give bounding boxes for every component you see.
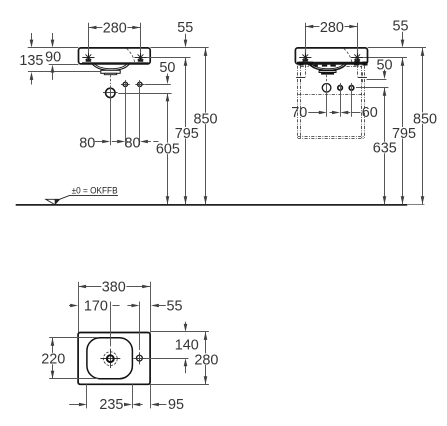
water connection circle left	[338, 86, 343, 91]
furniture cabinet left side panel (dash-dot double line)	[297, 66, 299, 139]
dim 280 (right) extension lines	[305, 23, 307, 54]
dim 170: left arrow	[69, 305, 70, 307]
dim text 850 (right)	[413, 112, 438, 124]
extension line: tap centre right	[145, 358, 189, 360]
dim text 850	[193, 113, 218, 125]
dim text 220	[41, 353, 66, 365]
dim 70/60 chain: first arrow	[308, 112, 319, 114]
extension line plan right edge down	[150, 384, 152, 408]
bowl outer curve (right view)	[309, 64, 347, 71]
bowl inner curve (right view)	[311, 64, 344, 69]
svg-text:850: 850	[413, 111, 437, 127]
drain level line (50 dim bottom / 605 level)	[118, 93, 171, 95]
right view: tap level line (795)	[364, 57, 408, 59]
extension line fixing hole right down	[139, 80, 141, 145]
svg-text:605: 605	[156, 142, 180, 158]
extension line fixing hole left down	[125, 80, 127, 145]
floor level symbol triangle	[46, 199, 60, 204]
svg-text:±0 = OKFFB: ±0 = OKFFB	[72, 185, 118, 196]
dim 635 vertical line	[384, 88, 386, 205]
dim text 635	[372, 142, 397, 154]
line to 60 text	[352, 112, 361, 114]
tap hole right (front view)	[140, 49, 142, 61]
rim top reference line extending right to height dim lines	[150, 47, 208, 49]
dim 220 extension line top (bowl front edge)	[49, 337, 98, 339]
svg-text:635: 635	[373, 141, 397, 157]
dim 795 (right) vertical line	[402, 58, 404, 205]
cabinet wall fixing cross left	[296, 77, 305, 79]
level symbol leader line	[60, 195, 118, 199]
dim 280 line with arrows	[89, 27, 141, 29]
extension line bowl right edge down	[132, 384, 134, 408]
dim 280 extension line right	[140, 23, 142, 54]
dim 380 extension line left	[78, 282, 80, 333]
dim 280 extension line left	[88, 23, 90, 54]
washbasin body outline (front)	[79, 48, 151, 64]
dim 55 right arrow	[151, 304, 159, 308]
dim 90 outside arrows	[52, 33, 54, 40]
inner deck line of basin	[82, 62, 149, 64]
extension line: drain centre up to 170 dim	[110, 302, 112, 347]
extension line: plan top edge right	[150, 331, 209, 333]
svg-text:70: 70	[291, 105, 307, 121]
hidden bowl edge dashed arc (right view)	[344, 49, 352, 63]
dim text 280 (right)	[319, 21, 344, 33]
dim 850 vertical line	[205, 48, 207, 204]
dim 80 second: arrows and text	[112, 141, 118, 143]
hidden drain line down to trap (dashed)	[326, 75, 328, 83]
dim 80 first: arrow	[95, 141, 103, 143]
hidden drain pipe centre line (dashed)	[110, 75, 112, 84]
dim text 170	[83, 300, 108, 312]
dim 170/55 middle segment with arrow	[112, 305, 119, 307]
dim 55 leader arrow down to rim level	[185, 34, 187, 40]
bowl water section dashes	[314, 65, 318, 67]
line from circles level to 635 dim	[356, 87, 388, 89]
svg-text:80: 80	[79, 136, 95, 152]
svg-text:280: 280	[194, 352, 218, 368]
svg-text:235: 235	[99, 397, 123, 413]
svg-text:55: 55	[392, 18, 408, 34]
hidden bowl edge (dashed arc right side)	[127, 49, 135, 63]
tap hole level line (795) extending right	[147, 57, 191, 59]
bowl inner curve (front)	[95, 64, 128, 69]
svg-text:280: 280	[103, 20, 127, 36]
svg-text:60: 60	[362, 105, 378, 121]
drain boss under bowl	[101, 70, 120, 73]
dim 50 (right view) arrow above	[384, 70, 386, 72]
dim 220 extension line bottom (bowl back edge)	[49, 378, 98, 380]
dim 220 vertical line with arrows	[52, 338, 54, 379]
svg-text:55: 55	[166, 299, 182, 315]
extension line: plan bottom edge right	[150, 384, 209, 386]
dim text 380	[101, 280, 126, 292]
dim 50 outside arrow above	[167, 74, 169, 77]
svg-text:90: 90	[45, 50, 61, 66]
fixing hole right circle with cross	[138, 82, 142, 86]
deck section blocks	[299, 62, 304, 66]
drain boss (right view, dark)	[319, 70, 337, 73]
dim text 605	[155, 143, 180, 155]
dim 235 right arrow	[124, 403, 132, 407]
dim text 280	[102, 21, 127, 33]
dim 280 (right) line with arrows	[305, 26, 357, 28]
dim 140 outside arrows	[185, 322, 187, 325]
svg-text:50: 50	[376, 58, 392, 74]
tap hole left (right view)	[305, 49, 307, 61]
svg-text:380: 380	[102, 279, 126, 295]
washbasin front view: rim top reference line (left extension)	[28, 47, 79, 49]
hidden tap lines into cabinet (dash-dot)	[305, 65, 307, 77]
extension line bowl left edge down	[86, 384, 88, 408]
plan tap hole circle with cross	[137, 355, 143, 361]
svg-text:795: 795	[175, 126, 199, 142]
svg-text:280: 280	[320, 20, 344, 36]
svg-text:55: 55	[177, 20, 193, 36]
drain outlet circle with cross	[106, 88, 115, 97]
tap hole right (right view)	[357, 49, 359, 61]
dim 795 vertical line	[185, 58, 187, 205]
water connection circle right	[349, 86, 354, 91]
inner deck line (right view, sectioned dark)	[297, 62, 367, 64]
fixing hole left circle with cross	[123, 82, 127, 86]
dim 135 bottom reference line (bowl bottom)	[28, 71, 101, 73]
extension lines from circles down to 70/60 dim line	[326, 83, 328, 117]
line from fixing crosses level to 50 dim (right view)	[367, 79, 387, 81]
dim 850 (right) vertical line	[422, 48, 424, 204]
svg-text:220: 220	[41, 352, 65, 368]
dim 70 inner arrow	[330, 112, 333, 114]
svg-text:80: 80	[124, 136, 140, 152]
dim 605 vertical line	[167, 93, 169, 204]
furniture cabinet top edge	[301, 66, 309, 68]
svg-text:850: 850	[193, 112, 217, 128]
fixing hole level line (50 dim top)	[145, 84, 171, 86]
plan view: bowl outline	[87, 338, 132, 379]
cabinet wall fixing cross right	[358, 77, 367, 79]
bowl outer curve (front)	[92, 64, 130, 71]
dim 380 extension line right (also 170/55 and bottom tick)	[150, 282, 152, 333]
svg-text:95: 95	[168, 397, 184, 413]
dim 135 outside arrows	[31, 33, 33, 40]
dim 280 (plan) vertical line with arrows	[205, 332, 207, 384]
svg-text:50: 50	[159, 60, 175, 76]
dim 90 bottom reference line (apron bottom)	[49, 64, 79, 66]
svg-text:795: 795	[392, 126, 416, 142]
floor line (thick)	[16, 204, 408, 206]
furniture cabinet internal shelf line	[298, 94, 364, 96]
svg-text:140: 140	[175, 338, 199, 354]
svg-text:135: 135	[19, 53, 43, 69]
dim text 280 (plan)	[194, 353, 219, 365]
dim text 235	[99, 398, 124, 410]
drain trap connection circle	[322, 84, 331, 93]
plan drain: inner ring	[107, 355, 114, 362]
tap hole left (front view)	[88, 49, 90, 61]
plan drain: outer dashed circle	[103, 352, 117, 366]
washbasin body outline (right view)	[295, 48, 367, 64]
extension lines of outer edges through 170/55 chain	[78, 302, 80, 311]
dim 60 inner arrow	[340, 111, 348, 115]
plan view: basin outline	[78, 333, 150, 385]
dim 55 (right) leader arrow	[402, 32, 404, 40]
right view: rim top reference line to height dims	[368, 47, 426, 49]
extension line: tap centre up to 55 dim	[139, 302, 141, 351]
furniture cabinet right side panel	[361, 66, 363, 139]
plan drain: centre cross	[100, 358, 120, 360]
dim 95 right arrow	[151, 403, 159, 407]
dim text 795 (right)	[392, 127, 417, 139]
dim 95 left arrow	[132, 403, 140, 407]
furniture cabinet bottom (double dash-dot)	[298, 136, 365, 138]
extension line drain centre down	[110, 86, 112, 146]
floor line thin continuation	[407, 204, 424, 206]
dim 380 line with arrows	[78, 286, 150, 288]
dim 235 left arrow	[69, 404, 79, 406]
svg-text:170: 170	[84, 299, 108, 315]
dim text 795	[174, 127, 199, 139]
